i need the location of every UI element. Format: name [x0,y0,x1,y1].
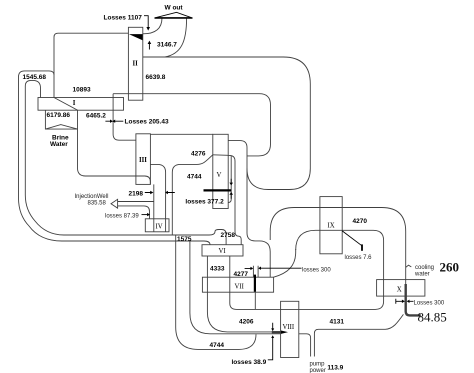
svg-text:10893: 10893 [73,87,91,94]
svg-text:2758: 2758 [221,232,236,239]
wire: channel III to V bottom wall with branch down through IV [150,164,165,231]
svg-text:4270: 4270 [353,218,368,225]
svg-text:4277: 4277 [234,271,249,278]
wire: W out pipe outer wall [165,18,187,57]
svg-text:4333: 4333 [210,266,225,273]
heat exchanger I [38,98,124,111]
wire: vertical VI to VII wall A continuing below VII to y331.9 [207,256,272,332]
arrowheads [146,27,150,31]
svg-text:6179.86: 6179.86 [47,112,71,119]
svg-text:4131: 4131 [330,319,345,326]
wire: measurement stub right of box V with hook [228,156,231,203]
2198 measure arrows [145,192,175,194]
svg-text:IV: IV [156,224,163,231]
losses 38.9 bracket [268,323,273,360]
box X [377,280,425,297]
svg-text:260: 260 [440,260,460,275]
svg-text:1545.68: 1545.68 [23,74,47,81]
wire: outer IX loop: left side up, top y207.5, right side down into box X [270,208,406,285]
box IX [320,197,342,254]
wire: injection well pipe lower wall turning down to box IV [118,206,150,219]
svg-text:I: I [73,100,76,107]
losses 1107 pointer [144,16,148,27]
svg-text:Water: Water [50,141,68,148]
svg-text:6465.2: 6465.2 [86,113,106,120]
svg-text:Losses 300: Losses 300 [414,301,445,307]
loss bar at VII [254,275,256,292]
svg-text:IX: IX [328,223,335,230]
svg-text:losses 300: losses 300 [302,268,331,274]
svg-text:4744: 4744 [210,342,225,349]
svg-text:water: water [414,272,430,278]
svg-text:pump: pump [310,362,326,368]
box VI [202,245,243,256]
turbine II [128,27,142,100]
wire: channel III to V top wall [150,133,212,135]
svg-text:4744: 4744 [187,174,202,181]
svg-text:113.9: 113.9 [327,365,343,372]
box VIII [281,301,299,357]
svg-text:2198: 2198 [129,191,144,198]
loss bar at V [204,189,232,191]
wire: pump pipe right wall and 4131 lower wall arcing up to X [314,314,403,356]
wire: narrow loss channel walls into VII [253,266,258,277]
svg-text:VIII: VIII [283,324,295,331]
wire: stub from VII bottom to y309.4 [254,292,256,309]
svg-text:4276: 4276 [191,151,206,158]
separator diagonal in I [54,98,78,111]
wire: riser from y241 down to lower wall y333.8 into box VIII [190,241,281,334]
svg-text:VII: VII [235,284,245,291]
wire: inner IX loop left wall S-curve into VII top right corner [274,249,296,277]
svg-text:power: power [310,368,326,373]
W out arrowhead [156,12,192,17]
wire: outer cap of 1545.68 well pipe, down left side to bottom bevel, right along y241 [19,71,211,245]
svg-text:Losses 205.43: Losses 205.43 [125,119,169,126]
wire: cooling water pipe thick through X to 84.85 [406,284,421,315]
wire: outer top-right loop from II right edge [143,57,310,190]
brine water channel with chevron [45,110,150,184]
svg-text:4206: 4206 [239,318,254,325]
box IV [145,219,169,232]
wire: feed into turbine II from left, down to separator I [54,33,128,97]
wire: box V right wall channel down x247, right along y240.9, down x270.2 into VII top [228,141,270,278]
svg-text:W out: W out [165,5,184,12]
svg-text:V: V [217,172,222,179]
svg-text:cooling: cooling [415,265,434,271]
heat exchanger III [136,134,151,185]
svg-text:3146.7: 3146.7 [157,42,177,49]
svg-text:6639.8: 6639.8 [146,74,166,81]
injection well open arrow [111,199,118,208]
Losses 205.43 measure arrows [105,120,123,122]
svg-text:losses 377.2: losses 377.2 [185,199,224,206]
wire: long line y93.7 becoming inner top-right loop, down and back to x247 [113,94,270,156]
svg-text:VI: VI [219,248,227,255]
losses 377.2 measure arrows [230,179,232,199]
loss bar at VIII [272,331,281,333]
wire: injection well pipe upper wall [118,201,154,203]
svg-text:Losses 1107: Losses 1107 [104,15,143,22]
wire: vertical from III bottom through box IV [153,184,155,231]
wedge in VIII [281,331,288,334]
svg-text:84.85: 84.85 [418,310,447,325]
box VII [202,277,273,292]
wire: riser from y235 down to bottom 4744 loop [176,235,256,349]
wire: branch right wall rising, S-curve into box V left edge [172,155,213,235]
svg-text:losses 7.6: losses 7.6 [345,255,373,261]
svg-text:II: II [133,61,139,68]
svg-text:III: III [139,157,147,164]
wire: box V exit at y155.4 down x235 into box VI top [228,155,241,244]
Losses 300 measure arrows [396,299,414,304]
svg-text:1575: 1575 [177,236,192,243]
svg-text:InjectionWell: InjectionWell [75,194,109,200]
wire: inner IX loop: from wall B corner along y309.4 through VIII, up x383.6, top y230.3 back to left side [230,230,384,309]
wire: W out pipe inner wall [143,18,162,34]
losses 7.6 leader [342,231,362,246]
svg-text:losses 87.39: losses 87.39 [105,214,139,220]
wire: cooling water label hook [406,265,412,267]
3146.7 pointer [148,44,150,50]
turbine II inlet wedge [129,34,143,40]
wire: pump pipe left wall from VIII lower wall [299,334,311,357]
wire: drop from separator I down into heat exchanger III [113,94,136,141]
4277 measure arrows [245,267,302,269]
wire: through box V at y155 [213,154,228,157]
svg-text:losses 38.9: losses 38.9 [232,359,267,366]
losses 87.39 arrow [142,214,148,216]
svg-text:835.58: 835.58 [88,201,107,207]
svg-text:X: X [397,287,402,294]
wire: inner cap of 1545.68 pipe from separator I top, down, right along y235 into box VI jog [25,80,226,244]
heat exchanger V [213,134,228,208]
